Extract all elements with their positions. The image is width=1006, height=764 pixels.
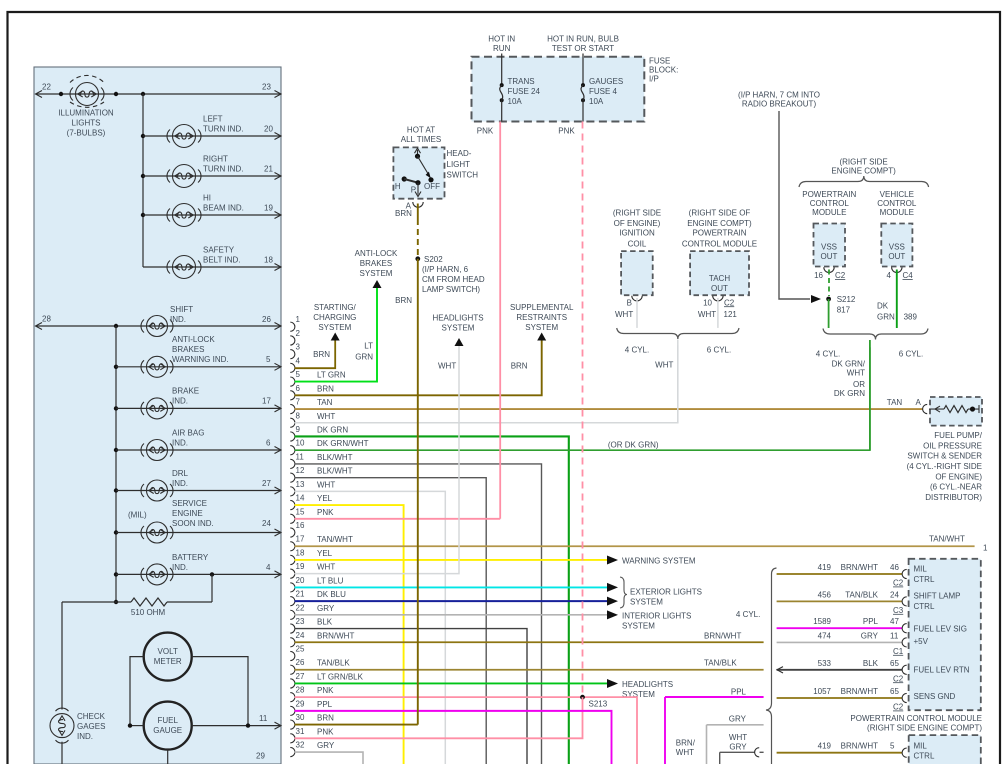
connector pin 13 [290,480,335,496]
svg-text:PPL: PPL [317,700,333,709]
svg-text:CONTROL: CONTROL [810,199,850,208]
wire fuel gauge row 11 [130,725,144,727]
resistor 510 OHM [114,600,118,604]
svg-text:LAMP SWITCH): LAMP SWITCH) [422,285,480,294]
svg-text:TAN/BLK: TAN/BLK [704,659,737,668]
wire pin 7 TAN to fuel pump [295,408,923,410]
svg-text:19: 19 [264,204,273,213]
wire +5V 11 [777,641,902,643]
svg-text:10: 10 [703,298,712,307]
svg-text:GAGES: GAGES [77,722,105,731]
svg-text:S213: S213 [589,700,608,709]
wire VCM DK GRN 389 [896,270,898,329]
svg-text:WHT: WHT [615,310,633,319]
wire BRN dashed harness [417,219,419,256]
brace 4cyl/6cyl coil [617,328,739,339]
svg-text:S202: S202 [424,255,443,264]
svg-text:(6 CYL.-NEAR: (6 CYL.-NEAR [930,483,982,492]
svg-text:BLK: BLK [317,618,333,627]
svg-text:16: 16 [296,521,305,530]
svg-text:CHECK: CHECK [77,712,106,721]
svg-text:BRN/WHT: BRN/WHT [317,631,354,640]
connector pin 3 [290,343,300,359]
svg-text:20: 20 [296,576,305,585]
svg-text:WHT: WHT [655,361,673,370]
wire pin 4 BRN [295,340,336,368]
svg-text:POWERTRAIN: POWERTRAIN [802,190,856,199]
wire VSS dashed green 817 [828,270,830,297]
svg-text:BRN/WHT: BRN/WHT [704,631,741,640]
svg-text:B: B [627,298,632,307]
wire S212 down [828,299,830,328]
connector pin 23 [290,617,332,633]
wire pin 9 DK GRN down [295,436,569,764]
svg-text:BRN: BRN [317,714,334,723]
connector pin 1 [290,315,300,331]
connector pin 11 [290,452,352,468]
svg-text:474: 474 [818,631,832,640]
connector pin 32 [290,741,335,757]
svg-text:BELT IND.: BELT IND. [203,256,241,265]
svg-text:IND.: IND. [172,563,188,572]
headlight switch box [393,147,444,198]
svg-text:H: H [395,182,401,191]
svg-text:21: 21 [264,165,273,174]
wire pin 30 BRN from headlamp switch [295,724,418,726]
wire pin 17 TAN/WHT to PCM [295,545,975,547]
module VSS OUT (PCM) [814,224,846,267]
svg-text:AIR BAG: AIR BAG [172,429,204,438]
svg-text:+5V: +5V [914,637,929,646]
wire MIL CTRL 5 [777,752,902,754]
svg-text:26: 26 [296,658,305,667]
svg-text:C2: C2 [835,271,846,280]
connector pin 20 [290,576,343,592]
svg-text:(RIGHT SIDE OF: (RIGHT SIDE OF [689,209,751,218]
connector pin 6 [290,384,334,400]
svg-text:PNK: PNK [317,508,334,517]
pin B [632,296,642,301]
wire pin 14 YEL down [295,505,404,764]
svg-text:(4 CYL.-RIGHT SIDE: (4 CYL.-RIGHT SIDE [907,462,982,471]
svg-text:OUT: OUT [711,284,728,293]
svg-text:PPL: PPL [863,617,879,626]
wire SHIFT LAMP CTRL 24 [777,600,902,602]
wire DK GRN/WHT or DK GRN down to pin 10 [869,340,871,450]
svg-text:HOT IN RUN, BULB: HOT IN RUN, BULB [547,35,619,44]
svg-text:METER: METER [154,657,182,666]
svg-text:GAUGES: GAUGES [589,77,623,86]
node battery branch [210,572,214,576]
svg-text:LIGHTS: LIGHTS [72,119,101,128]
wire cluster bus lower [115,326,117,602]
svg-text:DK GRN: DK GRN [834,389,865,398]
svg-text:46: 46 [890,563,899,572]
svg-text:RADIO BREAKOUT): RADIO BREAKOUT) [742,100,817,109]
svg-text:C4: C4 [903,271,914,280]
svg-text:5: 5 [296,370,301,379]
connector pin 29 [290,699,332,715]
svg-text:(OR DK GRN): (OR DK GRN) [608,440,659,449]
svg-text:BEAM IND.: BEAM IND. [203,204,244,213]
svg-text:OFF: OFF [424,182,440,191]
svg-text:24: 24 [296,631,305,640]
svg-text:TACH: TACH [709,274,730,283]
gauge FUEL GAUGE [144,702,192,750]
wire pin 8 WHT to 4cyl/6cyl coil brace [295,346,678,423]
svg-text:LT GRN/BLK: LT GRN/BLK [317,672,364,681]
svg-text:SERVICE: SERVICE [172,499,207,508]
svg-text:26: 26 [262,315,271,324]
lamp SAFETY BELT IND [167,256,201,279]
wire BRN S202 down to pin 30 [417,259,419,725]
svg-text:PNK: PNK [317,727,334,736]
svg-text:VSS: VSS [821,242,837,251]
svg-text:(I/P HARN, 7 CM INTO: (I/P HARN, 7 CM INTO [738,90,820,99]
wire pin 20 LT BLU to exterior lights [295,586,609,588]
svg-text:BRAKE: BRAKE [172,387,199,396]
wire SERVICE ENGINE SOON IND row [114,530,118,534]
svg-text:(RIGHT SIDE: (RIGHT SIDE [613,209,661,218]
svg-text:HEAD-: HEAD- [447,149,472,158]
svg-text:389: 389 [904,312,918,321]
svg-text:18: 18 [264,256,273,265]
lamp ILLUMINATION LIGHTS [70,75,104,107]
svg-text:7: 7 [296,398,301,407]
connector pin 19 [290,562,335,578]
svg-text:OF ENGINE): OF ENGINE) [614,219,661,228]
lamp ANTI-LOCK BRAKES WARNING IND [141,356,173,377]
wire pin 18 YEL to warning system [295,559,609,561]
wire cluster bus upper [142,94,144,267]
svg-text:SYSTEM: SYSTEM [318,323,351,332]
svg-text:533: 533 [818,659,832,668]
svg-text:13: 13 [296,480,305,489]
svg-text:5: 5 [266,355,271,364]
svg-text:FUEL LEV RTN: FUEL LEV RTN [914,666,970,675]
svg-text:4: 4 [296,356,301,365]
junction S213 [580,695,585,700]
svg-text:VSS: VSS [889,242,905,251]
svg-text:IND.: IND. [172,479,188,488]
wire pin 26 TAN/BLK to 4cyl bracket [295,669,764,671]
module VSS OUT (VCM) [881,224,912,267]
svg-text:121: 121 [724,310,738,319]
connector pin 22 [290,603,335,619]
svg-text:GRY: GRY [317,604,335,613]
svg-text:5: 5 [890,742,895,751]
lamp BATTERY IND [141,564,173,585]
svg-text:BRN: BRN [317,384,334,393]
svg-text:27: 27 [262,479,271,488]
wire FUEL LEV SIG 47 [777,627,902,629]
svg-text:PNK: PNK [558,127,575,136]
svg-text:TAN/BLK: TAN/BLK [317,659,350,668]
svg-text:BATTERY: BATTERY [172,553,209,562]
svg-text:IND.: IND. [77,732,93,741]
wire trans fuse feed [501,54,503,86]
wire RIGHT TURN row [141,174,145,178]
svg-text:VEHICLE: VEHICLE [880,190,914,199]
svg-text:HI: HI [203,194,211,203]
svg-text:LIGHT: LIGHT [447,160,471,169]
svg-text:LEFT: LEFT [203,115,223,124]
svg-text:1: 1 [983,544,988,553]
svg-text:31: 31 [296,727,305,736]
svg-text:SENS GND: SENS GND [914,692,956,701]
svg-text:4 CYL.: 4 CYL. [816,350,840,359]
fuse block I/P box [472,57,645,122]
svg-text:SAFETY: SAFETY [203,246,235,255]
wire pin 10 DK GRN/WHT to vss [295,347,870,450]
svg-text:WHT: WHT [676,748,694,757]
svg-text:MODULE: MODULE [880,208,914,217]
svg-text:(RIGHT SIDE ENGINE COMPT): (RIGHT SIDE ENGINE COMPT) [867,724,982,733]
svg-text:4: 4 [887,271,892,280]
svg-text:DK BLU: DK BLU [317,590,346,599]
svg-text:29: 29 [256,752,265,761]
svg-text:22: 22 [296,603,305,612]
svg-text:VOLT: VOLT [158,647,178,656]
svg-text:TAN: TAN [317,398,333,407]
svg-text:4 CYL.: 4 CYL. [625,346,649,355]
svg-text:C2: C2 [893,579,904,588]
connector pin 16 [290,521,305,537]
svg-text:12: 12 [296,466,305,475]
svg-text:EXTERIOR LIGHTS: EXTERIOR LIGHTS [630,588,702,597]
svg-text:ENGINE COMPT): ENGINE COMPT) [831,167,896,176]
svg-text:HEADLIGHTS: HEADLIGHTS [622,680,673,689]
wire pin 5 LT GRN to anti-lock brakes system [295,288,378,382]
wire headlamp switch BRN [417,204,419,220]
lamp BRAKE IND [141,398,173,419]
wire pin 13 WHT down [295,491,446,764]
svg-text:C3: C3 [893,606,904,615]
svg-text:WHT: WHT [698,310,716,319]
wire pin 27 LT GRN/BLK to headlights system [295,682,609,684]
connector pin 24 [290,631,354,647]
svg-text:CTRL: CTRL [914,575,935,584]
pin 16 C2 [824,267,834,272]
svg-text:RESTRAINTS: RESTRAINTS [516,313,567,322]
wire radio breakout to S212 [779,111,810,299]
svg-text:22: 22 [42,83,51,92]
wire GRY 4cyl [707,724,764,726]
svg-text:DK GRN/WHT: DK GRN/WHT [317,439,369,448]
wire pin 19 WHT to headlights system [295,346,460,574]
wire check gages bottom [61,742,63,764]
svg-text:GRY: GRY [729,715,747,724]
svg-text:ANTI-LOCK: ANTI-LOCK [172,335,215,344]
connector pin 28 [290,686,334,702]
svg-text:TAN/BLK: TAN/BLK [845,590,878,599]
svg-text:ANTI-LOCK: ANTI-LOCK [355,249,398,258]
wire pin 23 BLK down [295,629,528,764]
svg-text:1589: 1589 [813,617,831,626]
wire PNK from trans fuse [499,122,501,519]
svg-text:419: 419 [818,742,832,751]
svg-text:SUPPLEMENTAL: SUPPLEMENTAL [510,303,574,312]
wire S213 to pin 31 [295,697,583,738]
lamp CHECK GAGES IND [50,708,74,743]
svg-text:OIL PRESSURE: OIL PRESSURE [923,441,982,450]
svg-text:FUSE: FUSE [649,57,670,66]
svg-text:10A: 10A [589,97,604,106]
svg-text:17: 17 [296,535,305,544]
svg-text:FUEL: FUEL [157,716,178,725]
svg-text:17: 17 [262,397,271,406]
svg-text:MIL: MIL [914,741,928,750]
svg-text:PNK: PNK [477,127,494,136]
svg-text:BRAKES: BRAKES [172,345,204,354]
module PCM box 2 [909,735,981,764]
lamp DRL IND [141,480,173,501]
wire SAFETY BELT row [143,266,281,268]
svg-text:(RIGHT SIDE: (RIGHT SIDE [839,157,887,166]
connector pin 31 [290,727,334,743]
svg-text:RUN: RUN [493,44,511,53]
wire pin 15 PNK from trans fuse [295,518,501,520]
svg-text:SHIFT: SHIFT [170,305,193,314]
module ignition coil box [621,251,653,295]
svg-text:TAN/WHT: TAN/WHT [929,534,965,543]
svg-text:GRN: GRN [355,353,373,362]
svg-text:BLOCK:: BLOCK: [649,66,678,75]
svg-text:TAN: TAN [887,398,903,407]
svg-text:SYSTEM: SYSTEM [360,269,393,278]
wire battery to resistor [211,574,213,602]
svg-text:YEL: YEL [317,494,333,503]
svg-text:BRN/: BRN/ [676,739,696,748]
svg-text:WHT: WHT [317,480,335,489]
svg-text:SYSTEM: SYSTEM [442,324,475,333]
svg-text:SWITCH & SENDER: SWITCH & SENDER [907,452,982,461]
svg-text:(7-BULBS): (7-BULBS) [67,129,106,138]
svg-text:8: 8 [296,411,301,420]
svg-text:COIL: COIL [628,239,647,248]
svg-text:30: 30 [296,713,305,722]
svg-text:C1: C1 [893,647,904,656]
svg-text:IND.: IND. [172,439,188,448]
svg-text:6 CYL.: 6 CYL. [899,350,923,359]
wire gauges fuse out [582,100,584,121]
svg-text:10: 10 [296,439,305,448]
lamp AIR BAG IND [141,440,173,461]
svg-text:1: 1 [296,315,301,324]
svg-text:6: 6 [266,439,271,448]
wire pin 11 BLK/WHT down [295,464,542,764]
svg-text:28: 28 [296,686,305,695]
svg-text:CONTROL MODULE: CONTROL MODULE [682,239,757,248]
lamp SHIFT IND [141,316,173,337]
svg-text:S212: S212 [837,295,856,304]
svg-text:18: 18 [296,548,305,557]
svg-text:POWERTRAIN CONTROL MODULE: POWERTRAIN CONTROL MODULE [850,714,982,723]
svg-text:WHT: WHT [847,369,865,378]
svg-text:CTRL: CTRL [914,602,935,611]
svg-text:GRN: GRN [877,312,895,321]
svg-text:WHT: WHT [317,412,335,421]
connector pin 27 [290,672,363,688]
svg-text:BRN: BRN [313,350,330,359]
svg-text:24: 24 [890,590,899,599]
wire gauges fuse feed [582,54,584,86]
svg-text:SYSTEM: SYSTEM [525,323,558,332]
svg-text:32: 32 [296,741,305,750]
svg-text:TAN/WHT: TAN/WHT [317,535,353,544]
svg-text:10A: 10A [508,97,523,106]
connector pin 14 [290,494,332,510]
switch mechanism [417,150,419,156]
svg-text:DISTRIBUTOR): DISTRIBUTOR) [925,493,982,502]
svg-text:P: P [411,185,416,194]
svg-text:I/P: I/P [649,75,659,84]
wire volt meter left [130,657,144,726]
svg-text:TRANS: TRANS [508,77,535,86]
svg-text:SHIFT LAMP: SHIFT LAMP [914,591,961,600]
svg-text:DK GRN/: DK GRN/ [832,360,866,369]
svg-text:A: A [916,398,922,407]
svg-text:47: 47 [890,617,899,626]
wire LEFT TURN row [141,134,145,138]
svg-text:C2: C2 [893,703,904,712]
svg-text:29: 29 [296,699,305,708]
svg-text:3: 3 [296,343,301,352]
svg-text:ENGINE COMPT): ENGINE COMPT) [687,219,752,228]
wire MIL CTRL 46 [777,573,902,575]
wire volt meter right [192,657,248,726]
svg-text:BRN: BRN [511,361,528,370]
svg-text:BLK/WHT: BLK/WHT [317,467,353,476]
svg-text:INTERIOR LIGHTS: INTERIOR LIGHTS [622,612,691,621]
connector pin 2 [290,329,300,345]
svg-text:(I/P HARN, 6: (I/P HARN, 6 [422,265,469,274]
svg-text:21: 21 [296,590,305,599]
wire WHT down to pin 8 [677,340,679,423]
node dots illumination row [59,92,63,96]
svg-text:C2: C2 [893,674,904,683]
svg-text:24: 24 [262,519,271,528]
svg-text:CHARGING: CHARGING [313,313,356,322]
lamp HI BEAM IND [167,204,201,227]
wire SHIFT row 28-26 [36,325,281,327]
svg-text:BRN/WHT: BRN/WHT [841,742,878,751]
svg-text:OUT: OUT [821,252,838,261]
svg-text:SYSTEM: SYSTEM [630,598,663,607]
connector pin 10 [290,439,368,455]
wire coil WHT [636,298,638,328]
connector pin 30 [290,713,334,729]
brace 4cyl/6cyl vss [823,329,928,340]
wire pin 24 BRN/WHT to 4cyl bracket [295,641,764,643]
junction S212 [826,297,831,302]
gauge VOLT METER [144,633,192,681]
svg-text:GAUGE: GAUGE [153,726,182,735]
svg-text:65: 65 [890,659,899,668]
fuse GAUGES FUSE 4 10A [581,83,585,87]
wire resistor left drop [61,602,63,710]
module PCM box 1 [909,559,981,710]
svg-text:ILLUMINATION: ILLUMINATION [58,109,114,118]
svg-text:BRN/WHT: BRN/WHT [841,687,878,696]
svg-text:11: 11 [890,631,899,640]
connector pin 12 [290,466,352,482]
brace over modules [799,176,929,187]
svg-text:510 OHM: 510 OHM [131,608,166,617]
lamp SERVICE ENGINE SOON IND [141,522,173,543]
wire BATTERY IND row [114,572,118,576]
svg-text:DK: DK [877,301,889,310]
